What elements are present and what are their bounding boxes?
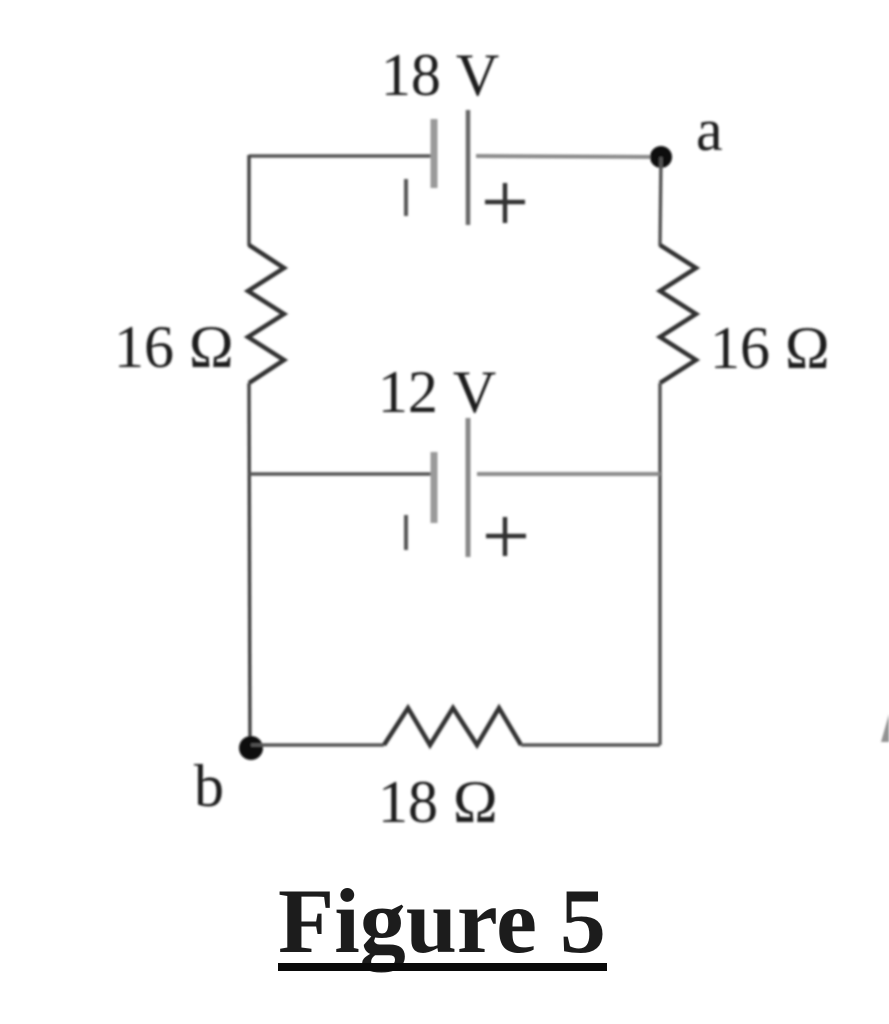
wire top-left horizontal (left node to 18V battery) (249, 154, 433, 158)
battery V2 12 V (434, 418, 468, 557)
wire left vertical lower (R1 through middle junction to node b) (249, 383, 250, 748)
battery V1 18 V (434, 110, 468, 225)
svg-text:Figure 5: Figure 5 (278, 870, 606, 972)
svg-text:18 Ω: 18 Ω (378, 769, 498, 835)
resistor R2 16 ohm (right, vertical zigzag) (660, 245, 696, 383)
clipped stray glyph at right edge (881, 714, 889, 742)
svg-text:b: b (194, 753, 224, 819)
svg-text:16 Ω: 16 Ω (710, 315, 830, 381)
minus terminal tick of V2 (404, 515, 408, 550)
wire left vertical upper (top corner down to R1) (247, 155, 251, 246)
svg-text:16 Ω: 16 Ω (114, 314, 234, 380)
wire right vertical lower (R2 through middle junction to bottom corner) (658, 383, 662, 745)
label node b (194, 753, 224, 819)
plus sign of V2 (486, 517, 526, 556)
wire top-right horizontal (18V battery to node a) (476, 156, 661, 157)
minus terminal tick of V1 (404, 179, 408, 216)
svg-text:18 V: 18 V (381, 42, 499, 108)
label 16 ohm right (710, 315, 830, 381)
wire right vertical upper (node a down to R2) (660, 157, 661, 246)
label 12 V (378, 359, 496, 425)
plus sign of V1 (485, 183, 525, 223)
caption Figure 5 (278, 870, 607, 972)
wire bottom-left horizontal (node b to R3) (251, 743, 384, 747)
node a junction dot (650, 146, 672, 168)
svg-text:12 V: 12 V (378, 359, 496, 425)
wire middle-left horizontal (left rail to 12V battery) (249, 472, 434, 476)
label 18 V (381, 42, 499, 108)
svg-text:a: a (696, 97, 723, 163)
resistor R1 16 ohm (left, vertical zigzag) (248, 245, 284, 383)
resistor R3 18 ohm (bottom, horizontal zigzag) (384, 708, 521, 745)
wire bottom-right horizontal (R3 to bottom-right corner) (521, 743, 660, 747)
label 16 ohm left (114, 314, 234, 380)
label 18 ohm (378, 769, 498, 835)
node b junction dot (239, 736, 263, 760)
wire middle-right horizontal (12V battery to right rail) (477, 472, 660, 476)
label node a (696, 97, 723, 163)
